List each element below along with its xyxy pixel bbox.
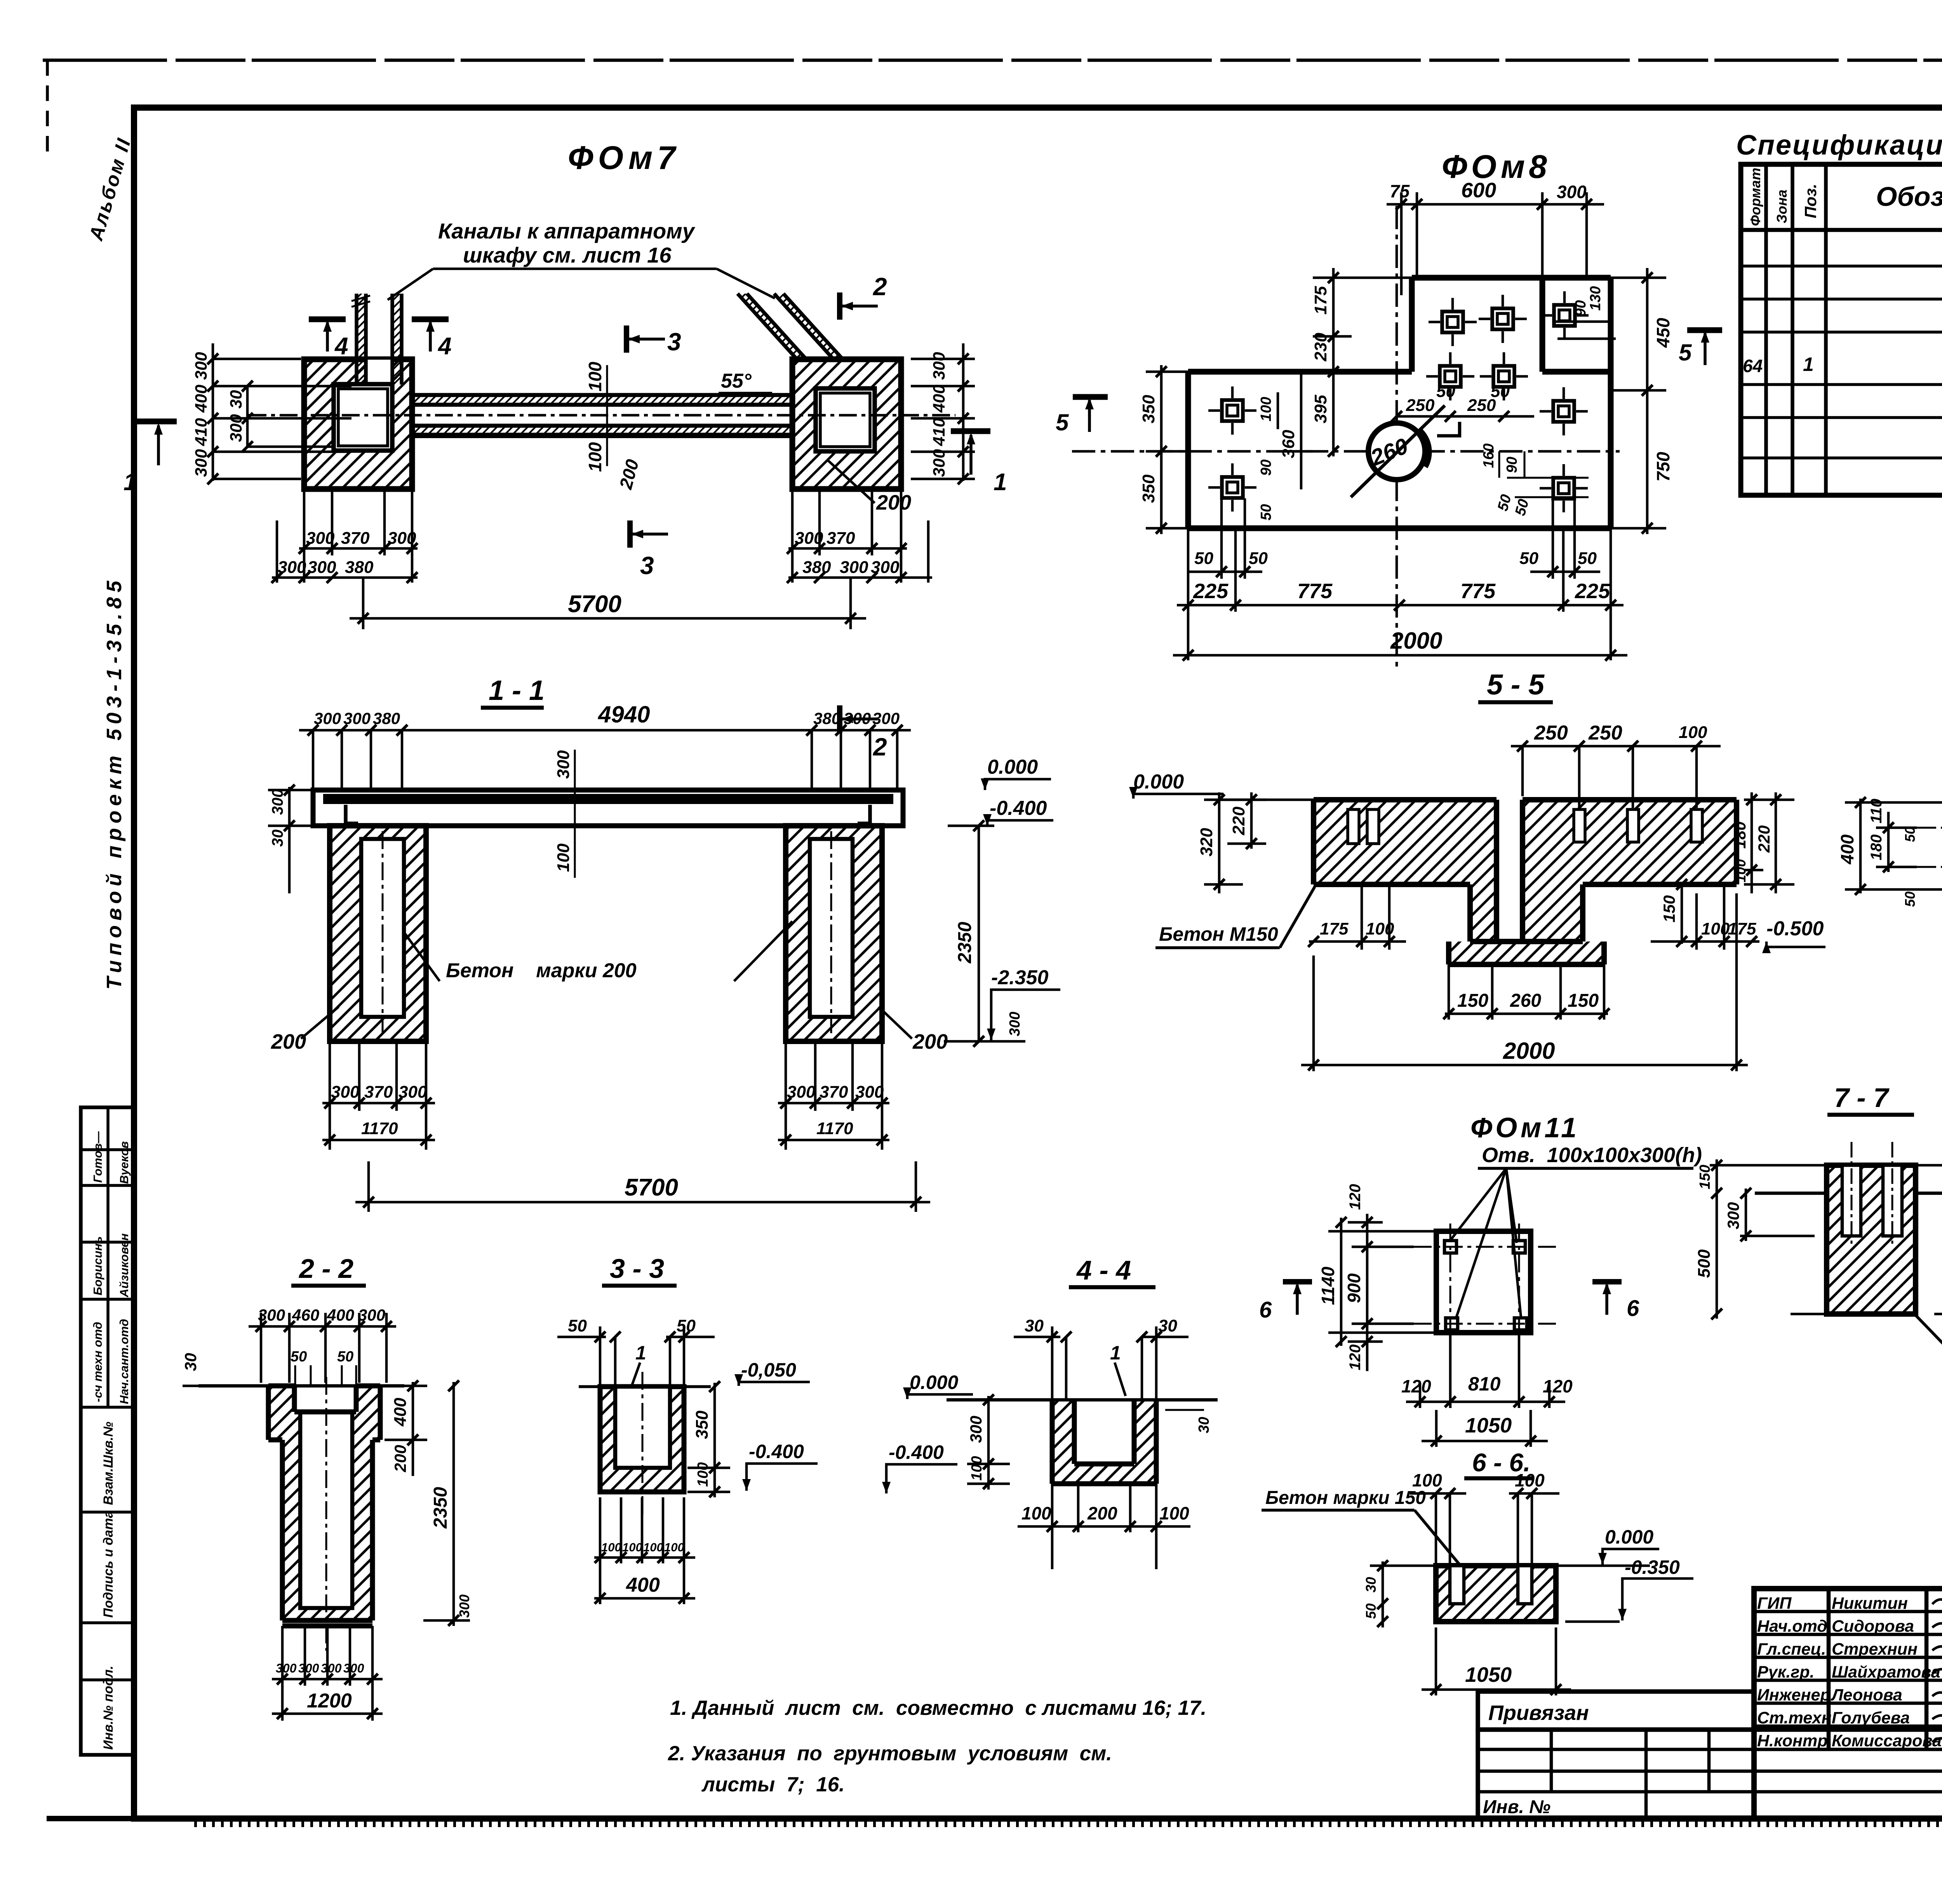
svg-text:300: 300 (554, 750, 573, 779)
svg-text:1. Данный лист см. совместн: 1. Данный лист см. совместно с листами 1… (670, 1697, 1206, 1720)
svg-text:Формат: Формат (1747, 168, 1763, 226)
svg-text:Нач.отд.: Нач.отд. (1757, 1617, 1832, 1636)
svg-text:-0.400: -0.400 (889, 1441, 944, 1463)
svg-text:3: 3 (667, 328, 681, 356)
FOm11 1050 dim (1422, 1410, 1548, 1447)
svg-text:3 - 3: 3 - 3 (610, 1253, 664, 1284)
1-1 right pier (786, 826, 882, 1041)
FOm7 section mark 3 bottom (630, 520, 668, 580)
FOm8 overall 2000 (1173, 654, 1627, 657)
svg-text:300: 300 (269, 789, 286, 815)
svg-text:100: 100 (1679, 723, 1707, 742)
svg-text:5: 5 (1679, 339, 1692, 365)
svg-text:100: 100 (1366, 919, 1394, 938)
6-6 bottom 1050 (1422, 1627, 1571, 1695)
svg-text:0.000: 0.000 (1133, 771, 1184, 793)
svg-text:300: 300 (308, 558, 336, 577)
svg-text:0.000: 0.000 (987, 756, 1038, 778)
FOm7 diagonal channel (738, 294, 843, 359)
svg-text:Гл.спец.: Гл.спец. (1757, 1640, 1826, 1659)
svg-text:370: 370 (341, 529, 370, 548)
spec table grid (1741, 164, 1942, 495)
svg-text:300: 300 (967, 1416, 985, 1443)
svg-text:шкафу см. лист 16: шкафу см. лист 16 (463, 243, 672, 267)
1-1 dim 2350 (948, 826, 994, 1041)
svg-text:500: 500 (1695, 1249, 1714, 1278)
svg-text:2000: 2000 (1503, 1038, 1555, 1064)
svg-text:320: 320 (1197, 828, 1216, 856)
2-2 ground line (198, 1384, 404, 1388)
FOm7 horizontal channel (249, 395, 955, 435)
5-5 hatched body (1314, 800, 1737, 964)
svg-text:50: 50 (1902, 891, 1918, 907)
svg-text:350: 350 (693, 1410, 712, 1439)
svg-text:Айзиковен: Айзиковен (117, 1233, 131, 1298)
svg-text:100: 100 (695, 1462, 711, 1487)
3-3 right dims (687, 1383, 730, 1497)
svg-text:100: 100 (1258, 397, 1274, 421)
FOm8 left edge dims 350/350 (1146, 365, 1188, 534)
svg-text:225: 225 (1193, 580, 1229, 603)
svg-text:250: 250 (1467, 396, 1496, 415)
svg-text:300: 300 (358, 1306, 385, 1324)
svg-text:400: 400 (192, 385, 211, 413)
svg-text:6: 6 (1627, 1296, 1639, 1321)
svg-text:4940: 4940 (598, 701, 650, 727)
svg-text:Каналы к аппаратному: Каналы к аппаратному (438, 219, 696, 243)
svg-text:100: 100 (1021, 1503, 1051, 1523)
svg-text:300: 300 (456, 1594, 472, 1618)
7-7 block (1827, 1142, 1916, 1314)
svg-text:Взам.Шкв.№: Взам.Шкв.№ (101, 1422, 116, 1505)
4-4 bottom dims (1018, 1484, 1190, 1569)
svg-text:50: 50 (1519, 549, 1538, 568)
svg-text:30: 30 (181, 1353, 200, 1371)
svg-text:370: 370 (827, 529, 855, 548)
svg-text:100: 100 (1733, 859, 1749, 882)
svg-text:55°: 55° (721, 370, 752, 392)
svg-text:0.000: 0.000 (1605, 1526, 1653, 1548)
6-6 top dims (1410, 1493, 1559, 1566)
svg-text:150: 150 (1568, 990, 1599, 1011)
svg-text:380: 380 (373, 709, 400, 727)
svg-text:150: 150 (1697, 1165, 1713, 1189)
svg-text:ФОм7: ФОм7 (568, 139, 680, 176)
FOm7 left pier (304, 359, 412, 489)
FOm8 center lines (1396, 206, 1398, 672)
svg-text:300: 300 (1724, 1202, 1742, 1229)
svg-text:1: 1 (635, 1342, 646, 1364)
svg-text:120: 120 (1347, 1184, 1364, 1210)
svg-text:-0.500: -0.500 (1766, 917, 1824, 940)
svg-text:100: 100 (1159, 1503, 1189, 1523)
svg-text:Бетон марки 150: Бетон марки 150 (1265, 1488, 1426, 1508)
svg-text:225: 225 (1575, 580, 1610, 603)
svg-text:150: 150 (1457, 990, 1488, 1011)
1-1 slab (313, 790, 903, 826)
svg-text:250: 250 (1406, 396, 1435, 415)
svg-text:120: 120 (1543, 1376, 1573, 1396)
svg-text:900: 900 (1344, 1273, 1364, 1303)
svg-text:5: 5 (1056, 409, 1069, 435)
FOm7 right pier (792, 359, 901, 503)
svg-text:180: 180 (1731, 821, 1749, 849)
svg-text:-0,050: -0,050 (741, 1359, 796, 1381)
svg-text:300: 300 (306, 529, 335, 548)
change table grid (1478, 1730, 1942, 1819)
FOm11 bottom dims (1406, 1333, 1565, 1408)
svg-text:2350: 2350 (430, 1487, 451, 1529)
svg-text:-0.400: -0.400 (990, 797, 1047, 820)
spec table header texts (1747, 168, 1942, 226)
svg-text:30: 30 (227, 390, 245, 409)
title block grid (1754, 1589, 1942, 1819)
1-1 top dims (299, 730, 911, 792)
svg-text:1: 1 (1110, 1342, 1121, 1364)
svg-text:50: 50 (337, 1349, 353, 1365)
svg-text:100: 100 (622, 1540, 642, 1554)
5-5 dims right (1651, 884, 1759, 950)
svg-text:Стрехнин: Стрехнин (1832, 1640, 1918, 1659)
svg-text:220: 220 (1229, 806, 1248, 835)
svg-text:90: 90 (1504, 457, 1520, 473)
FOm8 notch dims (1554, 322, 1616, 339)
FOm7 bottom dims right pier (788, 489, 932, 583)
6-6 block (1436, 1566, 1556, 1622)
svg-text:Рук.гр.: Рук.гр. (1757, 1663, 1815, 1681)
4-4 ground line (947, 1398, 1218, 1402)
FOm7 section mark 2 top (840, 273, 887, 320)
FOm7 section mark 1 left (124, 421, 177, 496)
svg-text:Н.контр.: Н.контр. (1757, 1732, 1832, 1750)
svg-text:Нач.сант.отд: Нач.сант.отд (117, 1319, 131, 1404)
svg-text:2: 2 (873, 733, 887, 761)
svg-text:30: 30 (1196, 1417, 1212, 1433)
svg-text:300: 300 (314, 709, 341, 727)
svg-text:1: 1 (1803, 353, 1814, 375)
FOm8 section mark 5 left (1056, 397, 1108, 435)
svg-text:300: 300 (278, 558, 306, 577)
svg-text:100: 100 (1515, 1470, 1545, 1490)
svg-text:1140: 1140 (1318, 1267, 1338, 1305)
svg-text:380: 380 (813, 709, 840, 727)
5-5 trench dims (1681, 882, 1683, 944)
2-2 top dims (249, 1313, 396, 1383)
svg-text:листы 7; 16.: листы 7; 16. (701, 1773, 845, 1796)
svg-text:300: 300 (855, 1083, 884, 1102)
svg-text:Бетон М150: Бетон М150 (1159, 923, 1278, 945)
svg-text:130: 130 (1587, 286, 1604, 311)
svg-text:Готов—: Готов— (91, 1131, 104, 1183)
svg-text:300: 300 (871, 558, 900, 577)
5-5 right dims (1744, 792, 1794, 893)
svg-text:300: 300 (930, 449, 948, 477)
svg-text:300: 300 (343, 709, 371, 727)
svg-text:2 - 2: 2 - 2 (298, 1253, 353, 1284)
svg-text:Комиссарова: Комиссарова (1832, 1732, 1942, 1750)
svg-text:300: 300 (192, 449, 211, 477)
svg-text:300: 300 (276, 1661, 297, 1675)
svg-text:400: 400 (626, 1574, 660, 1596)
svg-text:0.000: 0.000 (910, 1371, 958, 1393)
FOm8 outline (1188, 278, 1611, 528)
FOm11 center lines (1414, 1224, 1557, 1385)
svg-text:Спецификация монолитного фун: Спецификация монолитного фундамента ФОм7 (1736, 130, 1942, 161)
svg-text:200: 200 (876, 491, 911, 514)
svg-text:1: 1 (124, 469, 137, 496)
svg-text:200: 200 (912, 1030, 948, 1053)
svg-text:180: 180 (1868, 834, 1885, 860)
svg-text:600: 600 (1461, 179, 1496, 202)
FOm12 left dims (1845, 799, 1942, 893)
svg-text:30: 30 (1363, 1577, 1379, 1592)
svg-text:-0.350: -0.350 (1625, 1556, 1680, 1578)
svg-text:100: 100 (664, 1540, 684, 1554)
svg-text:380: 380 (802, 558, 831, 577)
svg-text:ГИП: ГИП (1757, 1594, 1792, 1613)
5-5 bottom dims 150/260/150 (1445, 964, 1608, 1020)
FOm7 bottom dims left pier (272, 489, 418, 583)
svg-text:Инв.№ подл.: Инв.№ подл. (101, 1666, 116, 1750)
svg-text:300: 300 (258, 1306, 285, 1324)
svg-text:Бетон марки 200: Бетон марки 200 (446, 959, 637, 982)
1-1 left pier (330, 826, 426, 1041)
svg-text:400: 400 (327, 1306, 354, 1324)
svg-text:100: 100 (969, 1456, 985, 1481)
FOm7 overall dim 5700 (350, 579, 866, 629)
FOm7 section mark 4 left (309, 319, 348, 360)
svg-text:Зона: Зона (1774, 190, 1790, 223)
svg-text:460: 460 (292, 1306, 319, 1324)
svg-text:50: 50 (568, 1316, 587, 1335)
FOm11 holes (1444, 1241, 1527, 1330)
svg-text:750: 750 (1653, 452, 1673, 482)
svg-text:-2.350: -2.350 (991, 966, 1049, 989)
margin stamp column (81, 1107, 133, 1755)
svg-text:64: 64 (1743, 356, 1763, 376)
svg-text:380: 380 (345, 558, 374, 577)
svg-text:395: 395 (1311, 395, 1330, 423)
FOm8 section mark 5 right (1679, 330, 1722, 365)
svg-text:50: 50 (1194, 549, 1213, 568)
svg-text:350: 350 (1139, 474, 1158, 503)
svg-text:100: 100 (643, 1540, 663, 1554)
svg-text:775: 775 (1460, 580, 1496, 603)
FOm12 plan (1917, 802, 1942, 889)
svg-text:300: 300 (795, 529, 823, 548)
svg-text:1050: 1050 (1465, 1414, 1512, 1437)
svg-text:200: 200 (391, 1445, 409, 1472)
svg-text:Шайхратова: Шайхратова (1832, 1663, 1940, 1681)
svg-text:1050: 1050 (1465, 1663, 1512, 1686)
7-7 left dims (1717, 1159, 1746, 1319)
svg-text:175: 175 (1311, 286, 1330, 315)
FOm11 left dims (1328, 1214, 1437, 1371)
svg-text:370: 370 (364, 1083, 393, 1102)
svg-text:75: 75 (1390, 181, 1410, 201)
svg-text:1: 1 (994, 469, 1007, 496)
svg-text:50: 50 (1258, 504, 1274, 520)
svg-text:450: 450 (1653, 318, 1673, 348)
svg-text:Сидорова: Сидорова (1832, 1617, 1914, 1636)
svg-text:300: 300 (331, 1083, 360, 1102)
svg-text:90: 90 (1573, 300, 1589, 317)
svg-text:50: 50 (677, 1316, 696, 1335)
svg-text:100: 100 (554, 843, 573, 872)
svg-text:175: 175 (1320, 919, 1349, 938)
2-2 right dims (385, 1382, 470, 1626)
svg-text:300: 300 (1557, 182, 1587, 202)
svg-text:5700: 5700 (568, 591, 621, 618)
svg-text:Отв. 100х100х300(h): Отв. 100х100х300(h) (1482, 1143, 1702, 1167)
5-5 overall 2000 (1301, 893, 1748, 1071)
svg-text:300: 300 (388, 529, 416, 548)
FOm8 bottom dims 50/50 pairs (1189, 498, 1600, 579)
FOm8 top dims (1387, 192, 1604, 295)
svg-text:120: 120 (1347, 1344, 1364, 1370)
svg-text:Вуеков: Вуеков (117, 1141, 131, 1184)
FOm8 bottom dims 225/775/775/225 (1177, 528, 1624, 660)
svg-text:5 - 5: 5 - 5 (1487, 668, 1545, 701)
svg-text:300: 300 (840, 558, 868, 577)
spec table body (1743, 236, 1942, 493)
5-5 top dims (1511, 746, 1721, 808)
svg-text:350: 350 (1139, 395, 1158, 423)
svg-text:200: 200 (271, 1030, 306, 1053)
svg-text:100: 100 (585, 442, 605, 472)
svg-text:400: 400 (930, 385, 948, 413)
svg-text:Поз.: Поз. (1801, 184, 1820, 218)
2-2 pier body (268, 1377, 380, 1651)
FOm11 section mark 6 right (1592, 1282, 1639, 1321)
svg-text:250: 250 (1588, 722, 1622, 744)
svg-text:5700: 5700 (625, 1174, 678, 1201)
1-1 bottom dims (322, 1041, 889, 1150)
1-1 overall 5700 (355, 1161, 930, 1212)
svg-text:Ст.техн: Ст.техн (1757, 1709, 1832, 1727)
title block signatures (1932, 1596, 1942, 1743)
svg-text:1170: 1170 (361, 1119, 398, 1138)
svg-text:775: 775 (1297, 580, 1333, 603)
FOm7 center rotated labels (585, 362, 643, 492)
svg-text:250: 250 (1534, 722, 1568, 744)
svg-text:3: 3 (640, 552, 654, 580)
svg-text:ФОм8: ФОм8 (1442, 148, 1551, 185)
svg-text:50: 50 (1578, 549, 1597, 568)
svg-text:90: 90 (1258, 459, 1274, 476)
svg-text:300: 300 (1007, 1012, 1023, 1036)
svg-text:30: 30 (1025, 1316, 1044, 1335)
svg-text:ФОм11: ФОм11 (1470, 1112, 1580, 1143)
svg-text:-сч техн отд: -сч техн отд (91, 1322, 104, 1402)
svg-text:4 - 4: 4 - 4 (1076, 1255, 1131, 1285)
5-5 anchor slots (1348, 809, 1702, 844)
5-5 outline (1314, 800, 1737, 964)
svg-text:110: 110 (1868, 799, 1885, 823)
svg-text:Инв. №: Инв. № (1483, 1797, 1550, 1817)
svg-text:300: 300 (398, 1083, 427, 1102)
svg-text:300: 300 (872, 709, 900, 727)
FOm8 left column dims (1278, 268, 1414, 489)
svg-text:300: 300 (192, 352, 211, 380)
svg-text:2. Указания по грунтовым ус: 2. Указания по грунтовым условиям см. (668, 1742, 1112, 1765)
svg-text:400: 400 (1837, 834, 1857, 865)
svg-text:300: 300 (227, 414, 245, 442)
svg-text:100: 100 (1412, 1470, 1442, 1490)
svg-text:200: 200 (1087, 1503, 1117, 1523)
svg-text:175: 175 (1728, 919, 1756, 938)
svg-text:4: 4 (334, 333, 348, 360)
svg-text:50: 50 (1249, 549, 1268, 568)
svg-text:Обозначение: Обозначение (1876, 181, 1942, 212)
svg-text:2000: 2000 (1390, 628, 1442, 654)
FOm7 left dimension stack (213, 343, 352, 481)
svg-text:1170: 1170 (816, 1119, 853, 1138)
svg-text:300: 300 (343, 1661, 364, 1675)
FOm7 right dimension stack (911, 343, 975, 481)
FOm7 section mark 4 right (412, 319, 451, 360)
FOm11 section mark 6 left (1259, 1282, 1312, 1323)
svg-text:50: 50 (1902, 827, 1918, 842)
svg-text:Привязан: Привязан (1488, 1701, 1589, 1725)
svg-text:370: 370 (820, 1083, 848, 1102)
1-1 left small dims (268, 787, 311, 893)
svg-text:150: 150 (1660, 895, 1678, 922)
svg-text:Никитин: Никитин (1832, 1594, 1908, 1613)
6-6 left dims (1382, 1561, 1384, 1627)
svg-text:30: 30 (269, 830, 286, 847)
FOm8 bolt dims (1406, 382, 1510, 415)
svg-text:1 - 1: 1 - 1 (489, 675, 545, 706)
svg-text:Голубева: Голубева (1832, 1709, 1910, 1727)
FOm8 anchor bolts (1429, 298, 1477, 346)
svg-text:810: 810 (1468, 1373, 1501, 1395)
svg-text:6: 6 (1259, 1297, 1272, 1323)
svg-text:120: 120 (1401, 1376, 1431, 1396)
FOm8 right bolt dims (1481, 444, 1532, 518)
FOm7 vertical channel (352, 294, 402, 385)
title block signature rows (1757, 1594, 1942, 1750)
svg-text:410: 410 (192, 418, 211, 446)
3-3 bottom dims (594, 1497, 695, 1604)
svg-text:Типовой проект 503-1-35.85: Типовой проект 503-1-35.85 (103, 576, 126, 990)
svg-text:4: 4 (437, 333, 451, 360)
svg-text:50: 50 (1436, 382, 1455, 401)
svg-text:1200: 1200 (307, 1690, 352, 1712)
svg-text:360: 360 (1279, 430, 1298, 458)
svg-text:2: 2 (873, 273, 887, 301)
svg-text:300: 300 (844, 709, 871, 727)
svg-text:2350: 2350 (955, 922, 975, 964)
svg-text:410: 410 (930, 418, 948, 446)
FOm7 leader note (388, 219, 775, 300)
5-5 left dims (1204, 792, 1266, 893)
svg-text:50: 50 (291, 1349, 307, 1365)
FOm7 section mark 3 top (626, 325, 681, 356)
FOm8 right dims 450/750 (1611, 268, 1666, 534)
svg-text:Инженер: Инженер (1757, 1686, 1831, 1704)
svg-text:260: 260 (1510, 990, 1541, 1011)
4-4 left dims (967, 1396, 1010, 1490)
svg-text:Борисинь: Борисинь (91, 1236, 104, 1295)
3-3 block (579, 1372, 711, 1517)
svg-text:-0.400: -0.400 (749, 1441, 804, 1462)
4-4 channel block (1052, 1400, 1156, 1484)
svg-text:100: 100 (585, 362, 605, 392)
svg-text:300: 300 (930, 352, 948, 380)
2-2 bottom dims (272, 1626, 383, 1721)
svg-text:7 - 7: 7 - 7 (1834, 1083, 1890, 1113)
